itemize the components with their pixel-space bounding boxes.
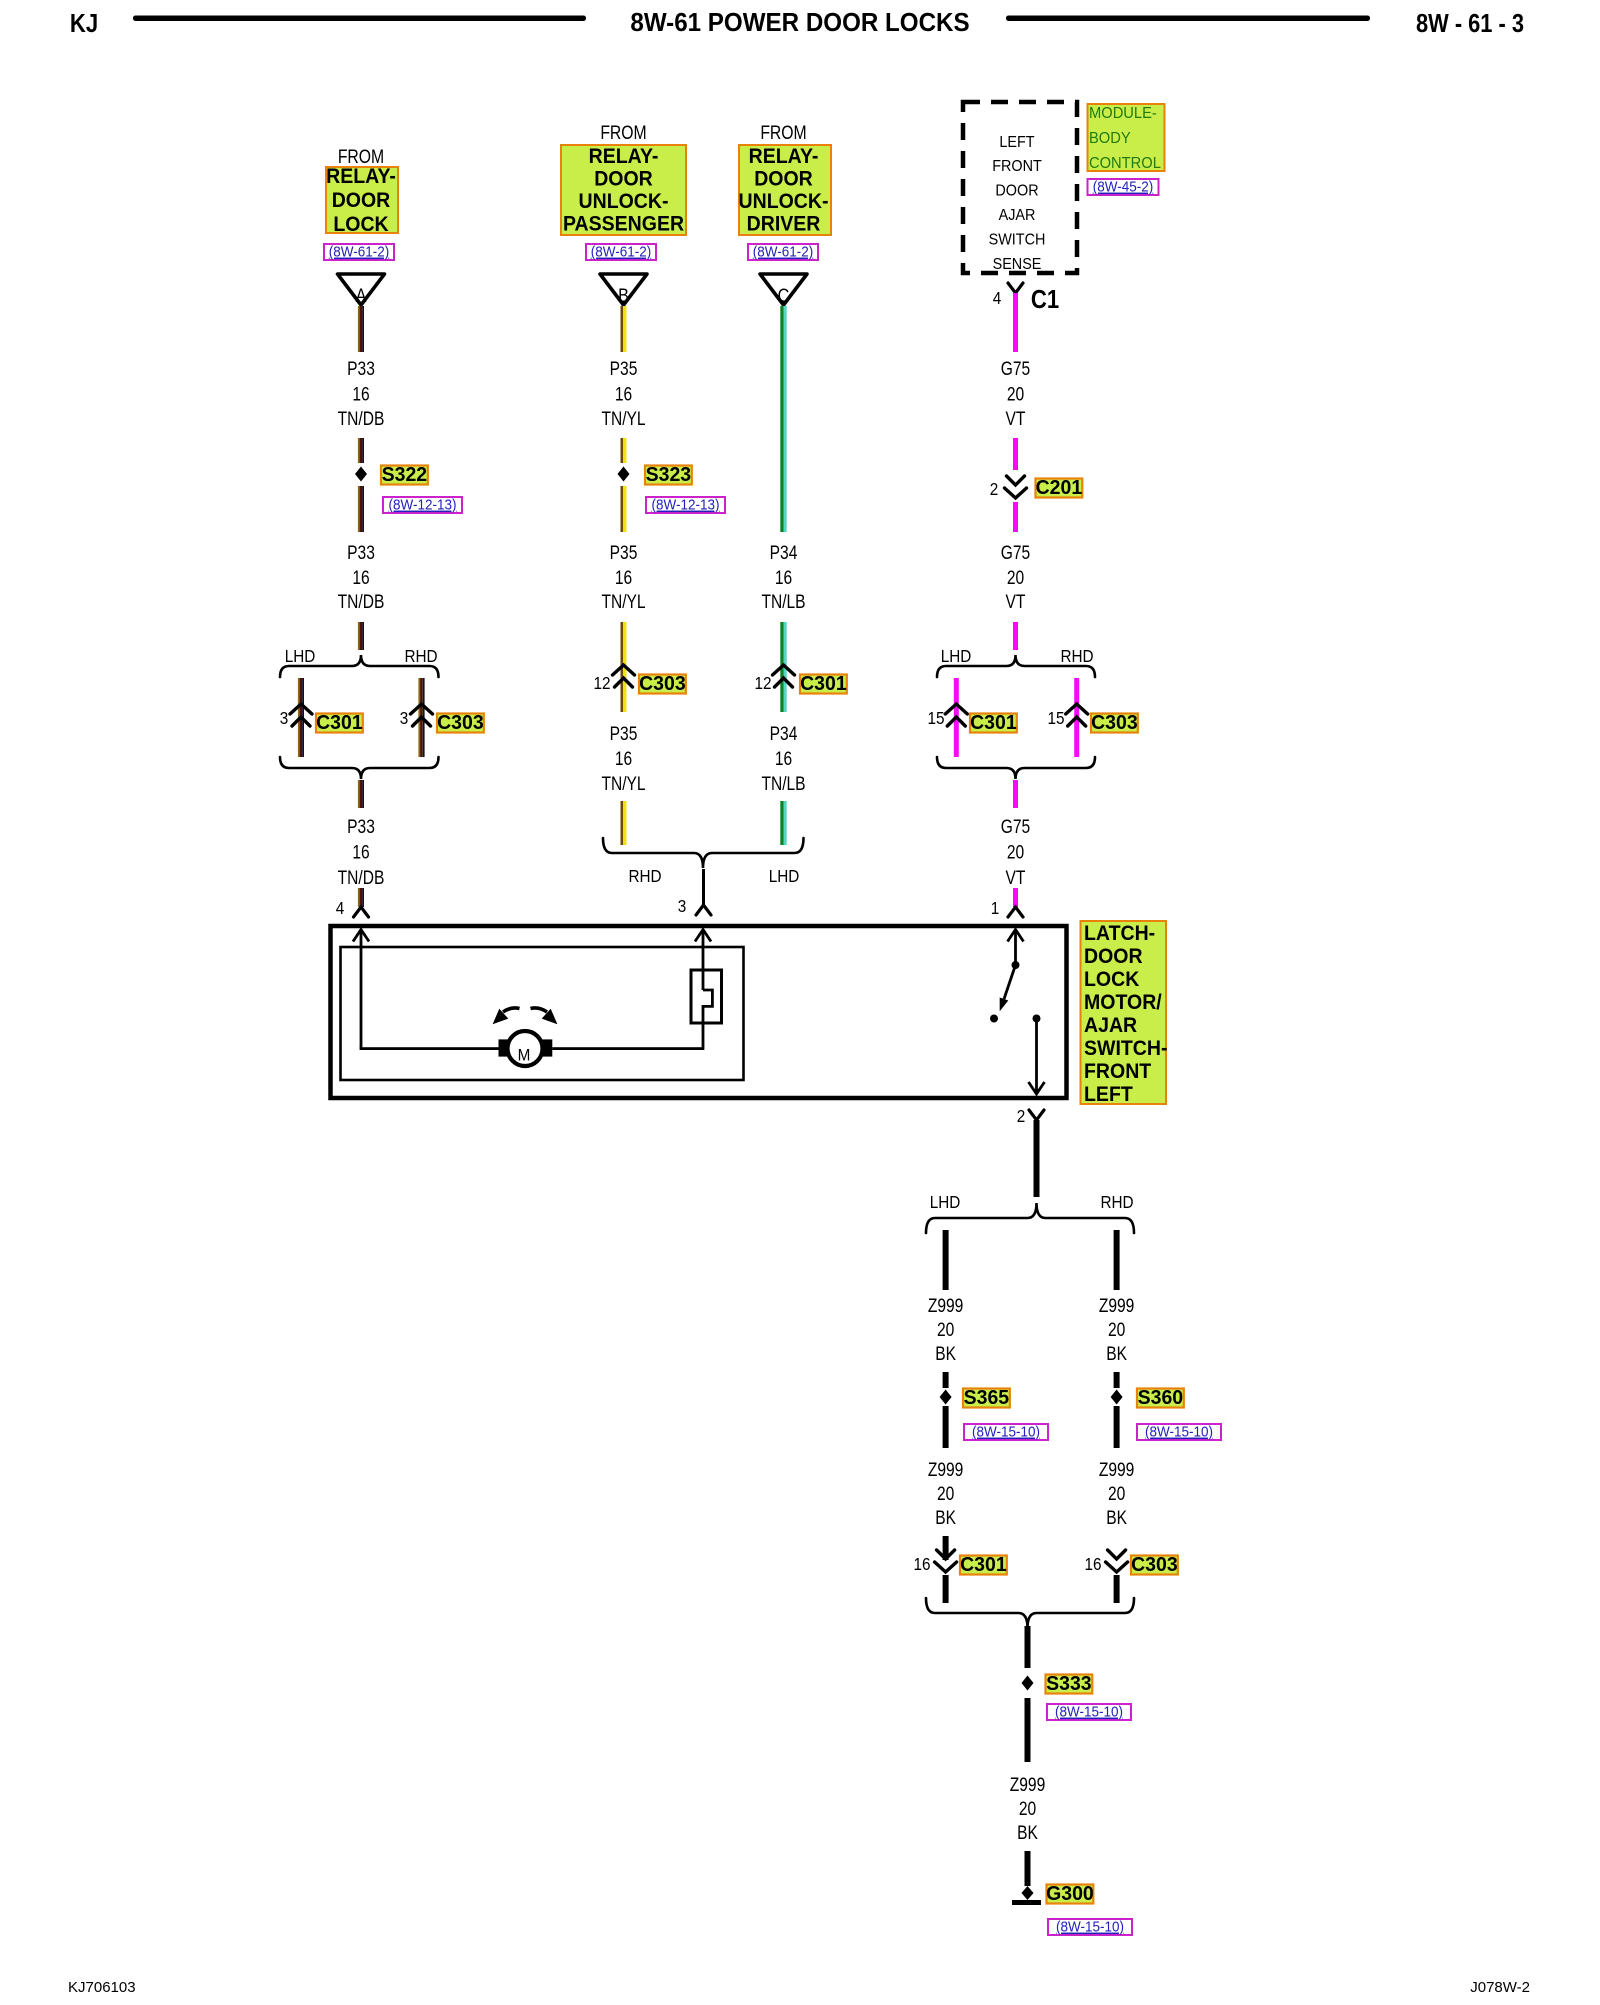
svg-text:Z999: Z999 xyxy=(1099,1459,1134,1481)
off-page connector triangle C xyxy=(760,274,807,305)
svg-text:BK: BK xyxy=(935,1343,956,1365)
svg-text:S322: S322 xyxy=(382,464,427,487)
svg-text:P35: P35 xyxy=(610,723,638,745)
svg-text:SENSE: SENSE xyxy=(993,255,1042,273)
svg-text:(8W-12-13): (8W-12-13) xyxy=(652,497,720,514)
svg-text:16: 16 xyxy=(775,567,792,589)
wire Z999 RHD segment 3 xyxy=(1114,1406,1120,1448)
svg-text:16: 16 xyxy=(352,841,369,863)
svg-text:(8W-61-2): (8W-61-2) xyxy=(329,244,389,261)
svg-text:MODULE-: MODULE- xyxy=(1089,104,1157,122)
brace merge (A) xyxy=(280,757,439,779)
svg-text:C303: C303 xyxy=(639,673,686,696)
wire P34 segment 3 xyxy=(780,801,783,845)
wire P34 TN/LB segment 1 xyxy=(780,306,783,532)
svg-text:FRONT: FRONT xyxy=(992,157,1042,175)
wire Z999 LHD segment 3 xyxy=(943,1406,949,1448)
link 8W-61-2 (B) xyxy=(586,244,656,260)
link 8W-15-10 (S360) xyxy=(1137,1424,1221,1440)
wire Z999 RHD segment 2 xyxy=(1114,1372,1120,1388)
svg-text:S365: S365 xyxy=(964,1387,1009,1410)
wire Z999 LHD segment 2 xyxy=(943,1372,949,1388)
svg-text:TN/YL: TN/YL xyxy=(601,591,645,613)
svg-text:G300: G300 xyxy=(1046,1883,1094,1906)
svg-text:VT: VT xyxy=(1006,591,1026,613)
svg-text:C301: C301 xyxy=(960,1554,1007,1577)
svg-text:20: 20 xyxy=(937,1483,954,1505)
wire motor right to pin 3 path xyxy=(552,1047,704,1050)
svg-text:BK: BK xyxy=(1106,1343,1127,1365)
link 8W-12-13 (S323) xyxy=(646,497,725,513)
ajar switch fixed contact xyxy=(990,1015,998,1023)
wire Z999 LHD segment 5 xyxy=(943,1575,949,1603)
svg-text:P35: P35 xyxy=(610,542,638,564)
wire Z999 merged segment 3 xyxy=(1025,1851,1031,1886)
svg-text:16: 16 xyxy=(775,748,792,770)
svg-text:VT: VT xyxy=(1006,867,1026,889)
svg-text:(8W-15-10): (8W-15-10) xyxy=(1055,1704,1123,1721)
wire P35 segment 4 xyxy=(621,622,624,712)
svg-text:P34: P34 xyxy=(770,542,798,564)
svg-text:LEFT: LEFT xyxy=(1084,1083,1133,1106)
ground G300 xyxy=(1022,1886,1034,1900)
svg-text:15: 15 xyxy=(1047,708,1064,728)
link 8W-45-2 xyxy=(1088,179,1159,195)
svg-text:P33: P33 xyxy=(347,542,375,564)
svg-text:PASSENGER: PASSENGER xyxy=(563,213,684,236)
svg-text:KJ: KJ xyxy=(70,9,98,38)
svg-text:(8W-61-2): (8W-61-2) xyxy=(753,244,813,261)
svg-text:B: B xyxy=(618,285,629,307)
svg-text:LHD: LHD xyxy=(930,1192,961,1212)
splice S360 xyxy=(1111,1390,1123,1405)
svg-text:P33: P33 xyxy=(347,816,375,838)
lock actuator jog symbol xyxy=(691,970,722,1023)
svg-text:16: 16 xyxy=(352,383,369,405)
brace merge (ground) xyxy=(926,1598,1134,1628)
svg-text:TN/DB: TN/DB xyxy=(338,867,385,889)
brace split LHD/RHD (ground) xyxy=(926,1203,1134,1233)
svg-text:Z999: Z999 xyxy=(1010,1774,1045,1796)
svg-text:LHD: LHD xyxy=(285,646,316,666)
svg-text:16: 16 xyxy=(615,748,632,770)
svg-text:15: 15 xyxy=(927,708,944,728)
wire G75 segment 4 xyxy=(1013,622,1018,650)
motor rotation arrows xyxy=(503,1008,520,1012)
svg-text:VT: VT xyxy=(1006,408,1026,430)
svg-text:TN/YL: TN/YL xyxy=(601,408,645,430)
svg-text:TN/DB: TN/DB xyxy=(338,408,385,430)
svg-text:FROM: FROM xyxy=(600,122,646,144)
svg-text:C1: C1 xyxy=(1031,285,1059,314)
svg-text:G75: G75 xyxy=(1001,542,1030,564)
svg-text:3: 3 xyxy=(678,896,687,916)
svg-text:C301: C301 xyxy=(316,712,363,735)
svg-text:(8W-45-2): (8W-45-2) xyxy=(1093,179,1153,196)
svg-text:LATCH-: LATCH- xyxy=(1084,922,1155,945)
svg-text:S323: S323 xyxy=(646,464,691,487)
wire G75 RHD branch xyxy=(1074,678,1079,757)
wire Z999 RHD segment 5 xyxy=(1114,1575,1120,1603)
wire P33 segment 4 xyxy=(358,622,360,650)
svg-text:AJAR: AJAR xyxy=(1084,1014,1137,1037)
inner housing box xyxy=(341,947,744,1080)
svg-text:TN/YL: TN/YL xyxy=(601,773,645,795)
svg-text:LHD: LHD xyxy=(769,866,800,886)
svg-text:RHD: RHD xyxy=(404,646,437,666)
svg-text:RHD: RHD xyxy=(628,866,661,886)
wire G75 segment 2 xyxy=(1013,438,1018,470)
link 8W-12-13 (S322) xyxy=(383,497,462,513)
ajar switch lever xyxy=(1004,965,1016,999)
svg-text:Z999: Z999 xyxy=(1099,1295,1134,1317)
svg-text:4: 4 xyxy=(336,898,345,918)
svg-text:2: 2 xyxy=(1017,1106,1026,1126)
header rule left xyxy=(133,16,586,22)
svg-text:16: 16 xyxy=(615,567,632,589)
svg-text:LOCK: LOCK xyxy=(333,213,389,236)
wire G75 LHD branch xyxy=(954,678,959,757)
svg-text:C303: C303 xyxy=(1131,1554,1178,1577)
svg-text:G75: G75 xyxy=(1001,816,1030,838)
svg-text:S333: S333 xyxy=(1046,1673,1091,1696)
svg-text:P34: P34 xyxy=(770,723,798,745)
wire P33 segment 2 xyxy=(358,438,360,463)
svg-text:1: 1 xyxy=(991,898,1000,918)
brace split LHD/RHD (D) xyxy=(937,655,1095,677)
svg-text:DOOR: DOOR xyxy=(594,168,653,191)
wire P34 segment 2 xyxy=(780,622,783,712)
wire P33 segment 5 xyxy=(358,780,360,808)
svg-text:P35: P35 xyxy=(610,358,638,380)
svg-text:20: 20 xyxy=(1108,1319,1125,1341)
svg-text:20: 20 xyxy=(1007,567,1024,589)
wire to pin 2 with arrow xyxy=(1035,1019,1038,1094)
svg-text:12: 12 xyxy=(754,673,771,693)
brace merge (D) xyxy=(937,757,1095,779)
link 8W-61-2 (C) xyxy=(748,244,818,260)
svg-text:AJAR: AJAR xyxy=(999,206,1036,224)
svg-text:BK: BK xyxy=(1017,1822,1038,1844)
svg-text:20: 20 xyxy=(1007,383,1024,405)
svg-text:C: C xyxy=(778,285,790,307)
svg-text:TN/DB: TN/DB xyxy=(338,591,385,613)
splice S333 xyxy=(1022,1676,1034,1691)
wire P35 segment 2 xyxy=(621,438,624,463)
splice S323 xyxy=(618,467,630,482)
merged wire to pin 3 xyxy=(702,869,705,905)
svg-text:BK: BK xyxy=(935,1507,956,1529)
brace split LHD/RHD (A) xyxy=(280,655,439,677)
svg-text:RELAY-: RELAY- xyxy=(326,165,396,188)
svg-text:LOCK: LOCK xyxy=(1084,968,1140,991)
svg-text:FROM: FROM xyxy=(338,146,384,168)
wire Z999 merged segment 2 xyxy=(1025,1698,1031,1762)
wire to motor left xyxy=(360,1047,500,1050)
svg-text:BK: BK xyxy=(1106,1507,1127,1529)
svg-text:8W - 61 - 3: 8W - 61 - 3 xyxy=(1416,9,1524,38)
wire Z999 LHD branch 1 xyxy=(943,1230,949,1290)
link 8W-61-2 (A) xyxy=(324,244,394,260)
svg-text:Z999: Z999 xyxy=(928,1459,963,1481)
svg-text:BODY: BODY xyxy=(1089,129,1131,147)
splice S322 xyxy=(355,467,367,482)
svg-text:C303: C303 xyxy=(1091,712,1138,735)
svg-text:(8W-61-2): (8W-61-2) xyxy=(591,244,651,261)
svg-text:G75: G75 xyxy=(1001,358,1030,380)
svg-text:MOTOR/: MOTOR/ xyxy=(1084,991,1162,1014)
svg-text:SWITCH-: SWITCH- xyxy=(1084,1037,1167,1060)
svg-text:LEFT: LEFT xyxy=(999,133,1034,151)
svg-text:2: 2 xyxy=(990,479,999,499)
svg-text:16: 16 xyxy=(352,567,369,589)
svg-text:DOOR: DOOR xyxy=(754,168,813,191)
pin 3 terminal arrow (inside) xyxy=(702,930,705,991)
svg-text:RELAY-: RELAY- xyxy=(589,145,659,168)
link 8W-15-10 (S333) xyxy=(1047,1704,1131,1720)
ajar switch common contact xyxy=(1012,961,1020,969)
svg-text:3: 3 xyxy=(400,708,409,728)
wire Z999 LHD segment 4 xyxy=(943,1536,949,1560)
link 8W-15-10 (S365) xyxy=(964,1424,1048,1440)
svg-text:C301: C301 xyxy=(800,673,847,696)
svg-text:4: 4 xyxy=(993,288,1002,308)
brace merge RHD/LHD (B+C) xyxy=(603,838,804,868)
svg-text:C303: C303 xyxy=(437,712,484,735)
motor M xyxy=(499,1039,510,1056)
wire G75 VT segment 1 xyxy=(1013,293,1018,352)
svg-text:16: 16 xyxy=(913,1554,930,1574)
ajar switch output contact xyxy=(1033,1015,1041,1023)
svg-text:UNLOCK-: UNLOCK- xyxy=(579,190,669,213)
svg-text:C201: C201 xyxy=(1036,477,1083,500)
svg-text:DOOR: DOOR xyxy=(332,189,391,212)
svg-text:KJ706103: KJ706103 xyxy=(68,1979,136,1996)
off-page connector triangle A xyxy=(338,274,385,305)
svg-text:8W-61 POWER DOOR LOCKS: 8W-61 POWER DOOR LOCKS xyxy=(630,8,969,37)
svg-text:RHD: RHD xyxy=(1060,646,1093,666)
svg-text:M: M xyxy=(518,1046,531,1065)
wire P35 TN/YL segment 1 xyxy=(621,306,624,352)
svg-text:SWITCH: SWITCH xyxy=(989,231,1046,249)
wire Z999 merged segment 1 xyxy=(1025,1626,1031,1668)
svg-text:S360: S360 xyxy=(1138,1387,1183,1410)
svg-text:UNLOCK-: UNLOCK- xyxy=(739,190,829,213)
splice S365 xyxy=(940,1390,952,1405)
svg-text:TN/LB: TN/LB xyxy=(761,591,805,613)
header rule right xyxy=(1006,16,1370,22)
svg-text:DOOR: DOOR xyxy=(1084,945,1143,968)
off-page connector triangle B xyxy=(600,274,647,305)
svg-text:RHD: RHD xyxy=(1100,1192,1133,1212)
svg-text:TN/LB: TN/LB xyxy=(761,773,805,795)
wire P33 LHD branch xyxy=(298,678,300,757)
wire Z999 RHD branch 1 xyxy=(1114,1230,1120,1290)
svg-text:Z999: Z999 xyxy=(928,1295,963,1317)
component box: LATCH-DOOR LOCK MOTOR/AJAR SWITCH-FRONT LEFT xyxy=(331,926,1067,1098)
svg-text:12: 12 xyxy=(593,673,610,693)
svg-text:(8W-12-13): (8W-12-13) xyxy=(389,497,457,514)
svg-text:CONTROL: CONTROL xyxy=(1089,154,1161,172)
component box: LEFT FRONT DOOR AJAR SWITCH SENSE (body control module) xyxy=(963,102,1077,273)
pin 1 terminal arrow (inside) xyxy=(1014,930,1017,966)
label MODULE-BODY CONTROL xyxy=(1088,104,1165,171)
label LATCH-DOOR LOCK MOTOR/AJAR SWITCH-FRONT LEFT xyxy=(1081,921,1167,1104)
svg-text:P33: P33 xyxy=(347,358,375,380)
wire G75 segment 5 xyxy=(1013,780,1018,808)
svg-text:20: 20 xyxy=(1108,1483,1125,1505)
wire P33 RHD branch xyxy=(418,678,420,757)
wire Z999 BK from pin 2 xyxy=(1034,1120,1040,1197)
svg-text:(8W-15-10): (8W-15-10) xyxy=(1056,1919,1124,1936)
svg-text:FROM: FROM xyxy=(760,122,806,144)
svg-text:RELAY-: RELAY- xyxy=(749,145,819,168)
svg-text:C301: C301 xyxy=(970,712,1017,735)
svg-text:(8W-15-10): (8W-15-10) xyxy=(972,1424,1040,1441)
svg-text:20: 20 xyxy=(1019,1798,1036,1820)
svg-text:DOOR: DOOR xyxy=(995,182,1038,200)
wire P35 segment 3 xyxy=(621,486,624,532)
wire P35 segment 5 xyxy=(621,801,624,845)
svg-text:20: 20 xyxy=(937,1319,954,1341)
svg-text:FRONT: FRONT xyxy=(1084,1060,1152,1083)
wire G75 segment 6 xyxy=(1013,888,1018,907)
wire P33 TN/DB segment 1 xyxy=(358,306,360,352)
link 8W-15-10 (G300) xyxy=(1048,1919,1132,1935)
svg-text:3: 3 xyxy=(280,708,289,728)
wire P33 segment 3 xyxy=(358,486,360,532)
svg-text:20: 20 xyxy=(1007,841,1024,863)
svg-text:A: A xyxy=(356,285,367,307)
svg-text:DRIVER: DRIVER xyxy=(747,213,821,236)
svg-text:16: 16 xyxy=(1084,1554,1101,1574)
svg-text:(8W-15-10): (8W-15-10) xyxy=(1145,1424,1213,1441)
svg-text:16: 16 xyxy=(615,383,632,405)
wire P33 segment 6 xyxy=(358,888,360,907)
svg-text:LHD: LHD xyxy=(941,646,972,666)
svg-text:J078W-2: J078W-2 xyxy=(1470,1979,1530,1996)
pin 4 terminal arrow (inside) xyxy=(360,930,363,1049)
wire G75 segment 3 xyxy=(1013,502,1018,532)
